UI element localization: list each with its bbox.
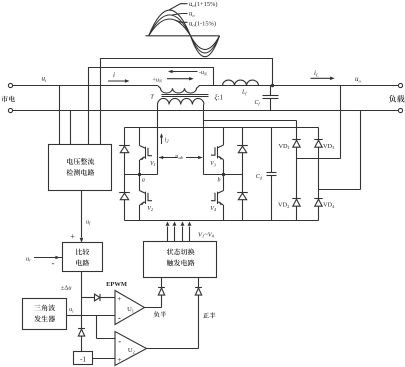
svg-text:ui: ui [42,75,48,83]
svg-text:V1: V1 [150,161,156,167]
svg-text:EPWM: EPWM [106,281,127,288]
svg-text:VD2: VD2 [278,202,289,209]
svg-text:ur: ur [26,256,31,263]
svg-text:+uN: +uN [152,77,162,83]
svg-text:uo: uo [355,75,362,83]
svg-text:+: + [117,294,121,303]
svg-text:-uN: -uN [199,70,207,76]
svg-text:uo(1-15%): uo(1-15%) [189,20,216,27]
svg-text:Lf: Lf [241,89,247,95]
svg-text:uf: uf [86,219,91,225]
svg-text:uc: uc [69,307,74,313]
svg-text:V3: V3 [210,161,216,167]
svg-text:T: T [150,94,154,101]
svg-text:uo: uo [189,11,195,18]
svg-text:iL: iL [314,69,319,77]
svg-text:-1: -1 [80,354,86,363]
svg-text:ξ:1: ξ:1 [215,93,224,101]
svg-text:VD3: VD3 [323,143,335,150]
svg-text:Cd: Cd [256,174,263,180]
svg-text:+: + [118,355,122,364]
svg-text:i: i [113,71,115,79]
svg-text:-: - [52,258,55,268]
svg-text:Cf: Cf [255,100,261,106]
svg-text:uo(1+15%): uo(1+15%) [189,1,217,8]
svg-text:i2: i2 [165,137,170,144]
svg-text:V2: V2 [147,206,153,212]
svg-text:-: - [118,312,121,322]
svg-text:±Δu: ±Δu [61,285,72,292]
svg-text:a: a [142,177,145,183]
svg-text:uab: uab [175,153,183,160]
svg-text:-: - [118,336,121,346]
svg-text:VD1: VD1 [279,143,290,150]
svg-text:VD4: VD4 [323,202,335,209]
svg-text:b: b [218,177,221,183]
svg-text:V1~V4: V1~V4 [198,232,215,239]
svg-text:V4: V4 [210,206,216,212]
svg-text:+: + [70,232,75,241]
